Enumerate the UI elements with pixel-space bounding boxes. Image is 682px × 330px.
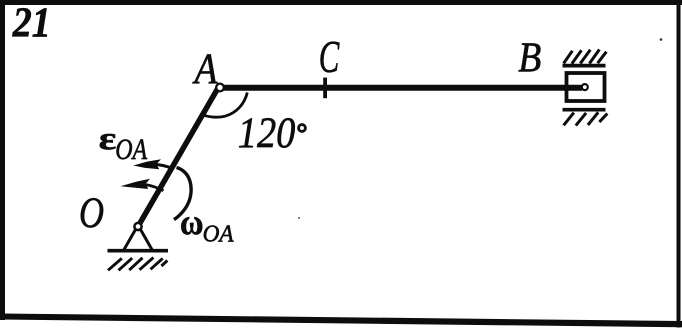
svg-text:C: C bbox=[319, 32, 340, 82]
svg-text:OA: OA bbox=[203, 221, 235, 248]
svg-text:OA: OA bbox=[115, 134, 148, 166]
svg-text:21: 21 bbox=[12, 1, 51, 47]
svg-text:B: B bbox=[518, 36, 541, 82]
svg-text:ε: ε bbox=[99, 120, 117, 156]
svg-text:A: A bbox=[192, 46, 218, 93]
svg-text:ω: ω bbox=[180, 202, 204, 242]
svg-text:O: O bbox=[79, 190, 104, 237]
svg-text:120: 120 bbox=[238, 110, 295, 157]
